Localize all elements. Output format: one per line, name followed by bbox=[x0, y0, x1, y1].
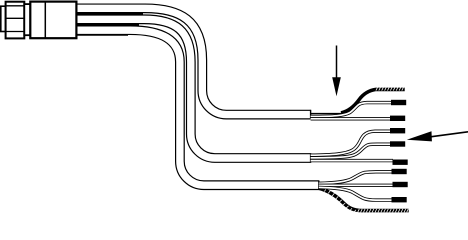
cable 2 (middle of bundle): S-curve to row 2 jacket bbox=[76, 19, 310, 158]
jacket end cap row 1 bbox=[310, 110, 312, 120]
horizontal arrow head bbox=[407, 131, 432, 141]
nut flat line bottom bbox=[6, 31, 25, 33]
bundle separator line 1 (cables 1/2 touching) bbox=[77, 13, 143, 15]
shield braid row 1 (curving up) bbox=[341, 89, 405, 113]
shield braid row 3 (curving down) bbox=[319, 188, 409, 210]
conductor row2-E (straight) bbox=[311, 159, 393, 162]
conductor row2-C (curves up high) bbox=[311, 131, 391, 155]
conductor row2-D (curves up) bbox=[311, 144, 391, 158]
connector body bbox=[30, 2, 76, 39]
connector tab (far left) bbox=[1, 6, 6, 31]
shield braid row 1 (thin lead) bbox=[311, 113, 343, 115]
terminal H bbox=[392, 197, 407, 202]
cable 1 (top of bundle): S-curve to row 1 jacket bbox=[76, 8, 310, 114]
bundle bottom edge emphasis bbox=[77, 34, 128, 36]
vertical arrow head bbox=[332, 77, 341, 96]
conductor row3-F (curves up) bbox=[319, 172, 392, 184]
horizontal arrow shaft bbox=[430, 132, 468, 137]
conductor row1-A (curves up) bbox=[311, 103, 392, 117]
conductor row3-H (curves down) bbox=[319, 187, 392, 200]
connector nut bbox=[6, 2, 25, 39]
terminal C bbox=[390, 128, 405, 133]
connector neck bbox=[24, 4, 30, 35]
terminal B bbox=[390, 116, 405, 121]
terminal E bbox=[393, 160, 408, 165]
bundle separator line 2 (cables 2/3 touching) bbox=[77, 24, 139, 26]
jacket end cap row 2 bbox=[310, 153, 312, 163]
nut flat line top bbox=[6, 5, 25, 7]
vertical arrow shaft bbox=[336, 46, 338, 80]
braid twist ticks row 1 bbox=[376, 87, 404, 90]
conductor row1-B (straight) bbox=[311, 117, 391, 120]
terminal F bbox=[392, 169, 407, 174]
terminal A bbox=[391, 100, 406, 105]
conductor row3-G (straight) bbox=[319, 184, 393, 187]
terminal D bbox=[390, 141, 405, 146]
terminal G bbox=[393, 182, 408, 187]
cable 3 (bottom of bundle): S-curve to row 3 jacket bbox=[76, 30, 318, 185]
body divider line bbox=[44, 2, 46, 39]
nut flat line middle bbox=[6, 17, 25, 19]
braid twist ticks row 3 bbox=[324, 189, 408, 213]
jacket end cap row 3 bbox=[318, 180, 320, 190]
